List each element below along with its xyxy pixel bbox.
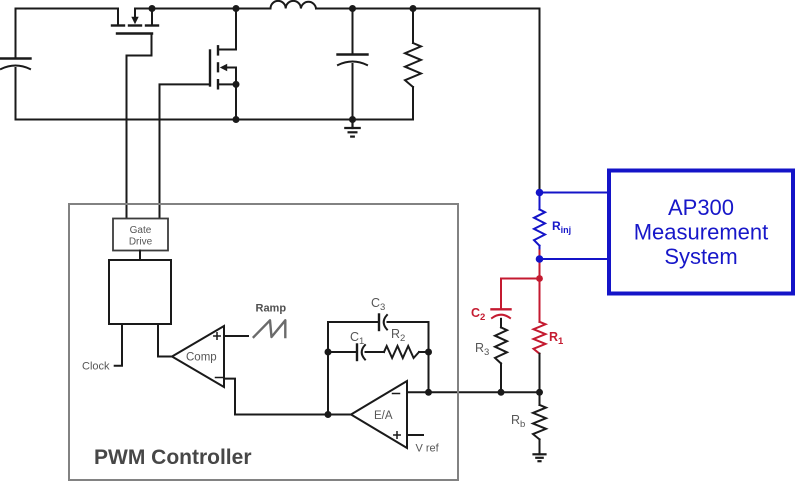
capacitor Cin top plate [1,57,31,59]
Gate Drive box [113,219,168,251]
wire: Q2 source to ground rail [235,84,237,119]
svg-text:AP300: AP300 [668,195,734,220]
wire: Q1 gate down to Gate Drive [127,35,152,219]
svg-text:E/A: E/A [374,410,393,422]
label AP300 Measurement System [634,195,769,269]
node: FB at R1/Rb [536,389,543,396]
capacitor C1 [357,345,384,361]
plus symbol Comp [214,333,220,339]
node: mid row left [325,349,332,356]
node: load resistor top [410,5,417,12]
node: right rail at FB line [425,389,432,396]
capacitor Cin curved plate [1,66,30,70]
svg-text:Drive: Drive [129,237,153,248]
wire: Gate Drive to latch [139,251,141,261]
plus symbol E/A [394,432,400,438]
wire: E/A inverting input line to divider [407,391,540,393]
svg-text:Comp: Comp [186,352,217,364]
svg-text:Rinj: Rinj [552,219,571,235]
svg-text:R3: R3 [475,341,489,358]
node: output cap top [349,5,356,12]
svg-text:V ref: V ref [416,443,440,455]
wire: latch to comparator apex [158,324,172,357]
resistor Rinj (blue) [534,193,545,251]
wire: Comp + to ramp [224,335,248,337]
wire: input rail from Cin up and right into Q1 source [16,9,119,59]
wire: R2 to right rail [419,351,429,353]
transistor Q2 low-side MOSFET [210,9,236,89]
svg-text:System: System [664,244,737,269]
node: top rail at Q1 drain [149,5,156,12]
inductor L1 [271,1,317,9]
svg-text:R2: R2 [391,327,405,344]
node: feedback tap at E/A output [325,411,332,418]
node: FB at R3 [498,389,505,396]
wire: C2 to R3 [500,319,502,328]
wire: Q2 gate to Gate Drive [160,84,210,218]
wire: red tap to C2 [501,279,540,309]
resistor Rb [533,392,546,454]
node: Q2 source [233,81,240,88]
latch box [109,260,171,324]
node: red tap [536,275,543,282]
AP300 measurement system box [609,171,793,294]
node: switch node top [233,5,240,12]
svg-text:C2: C2 [471,306,485,323]
wire: top rail Q1 to inductor [152,8,271,10]
resistor Rload [405,9,421,120]
op-amp E/A [351,381,407,448]
wire: blue to AP300 lower [540,258,610,260]
svg-text:Clock: Clock [82,361,110,373]
ground: output [345,120,359,137]
wire: C3 row left [328,321,378,323]
svg-text:PWM Controller: PWM Controller [94,446,252,469]
node: Q2 source at ground rail [233,116,240,123]
op-amp Comp [172,326,224,387]
wire: Cin bottom lead [15,68,17,120]
svg-text:R1: R1 [549,330,564,347]
feedback network right rail [428,322,430,392]
svg-text:Gate: Gate [130,225,152,236]
node: injection top (blue) [536,189,544,197]
node: injection bottom (blue) [536,255,544,263]
minus symbol E/A [393,393,400,395]
node: output cap bottom [349,116,356,123]
minus symbol Comp [216,377,223,379]
wire: red feed down from Rinj [539,251,541,322]
transistor Q1 high-side MOSFET [112,9,158,34]
capacitor C3 [379,315,429,331]
svg-text:Rb: Rb [511,413,525,430]
capacitor C2 (red) [492,309,511,318]
wire: R1 bottom to FB line [539,354,541,393]
resistor R3 [495,327,507,363]
wire: C1 row left [328,351,356,353]
feedback network left rail [327,322,329,415]
wire: V ref stub [407,434,423,436]
ground: Rb [534,454,546,461]
node: mid row right [425,349,432,356]
ramp waveform icon [254,320,286,337]
wire: blue to AP300 upper [540,192,610,194]
resistor R1 (red) [534,322,546,354]
wire: Comp - input from E/A output [224,379,351,415]
svg-text:C3: C3 [371,296,385,313]
wire: clock stub [115,324,122,366]
wire: bottom ground rail [16,119,414,121]
capacitor Cout [338,9,368,120]
svg-text:Ramp: Ramp [256,303,287,315]
svg-text:Measurement: Measurement [634,220,769,245]
wire: R3 bottom to FB line [500,363,502,392]
PWM controller box [69,204,458,480]
wire: top rail inductor to right corner, down to injection node [316,9,540,193]
resistor R2 [384,346,419,358]
